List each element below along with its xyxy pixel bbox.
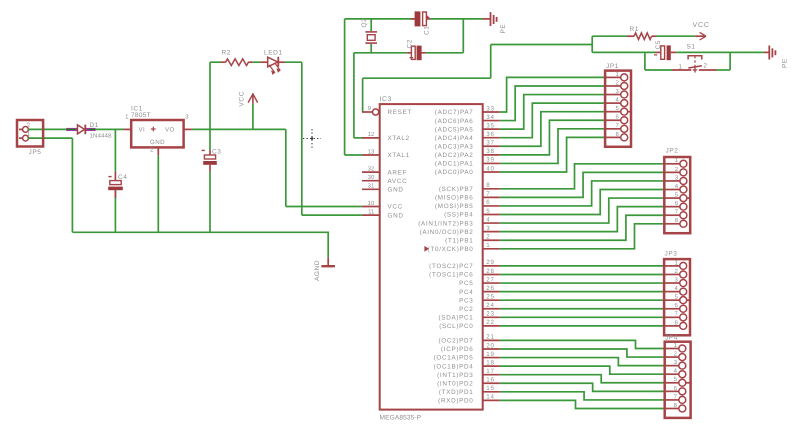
- svg-text:Q2: Q2: [361, 18, 368, 28]
- svg-text:JP5: JP5: [29, 149, 42, 156]
- svg-text:GND: GND: [388, 187, 404, 194]
- svg-text:34: 34: [486, 114, 494, 121]
- svg-text:13: 13: [368, 148, 375, 155]
- svg-text:33: 33: [486, 105, 494, 112]
- svg-text:C4: C4: [118, 174, 128, 181]
- svg-text:(AIN0/OC0)PB2: (AIN0/OC0)PB2: [420, 229, 474, 236]
- svg-text:PE: PE: [500, 24, 507, 34]
- svg-text:4: 4: [486, 216, 490, 223]
- svg-text:JP4: JP4: [665, 335, 678, 342]
- svg-text:C3: C3: [212, 148, 222, 155]
- svg-text:(SCL)PC0: (SCL)PC0: [439, 323, 473, 330]
- svg-text:(ADC5)PA5: (ADC5)PA5: [435, 126, 474, 133]
- svg-text:GND: GND: [388, 212, 404, 219]
- svg-text:VCC: VCC: [693, 22, 710, 29]
- svg-text:RESET: RESET: [388, 109, 413, 116]
- svg-text:(ADC1)PA1: (ADC1)PA1: [435, 161, 474, 168]
- svg-text:39: 39: [486, 157, 494, 164]
- svg-text:1N4448: 1N4448: [90, 133, 113, 140]
- svg-text:(INT0)PD2: (INT0)PD2: [437, 380, 473, 387]
- svg-text:(ADC4)PA4: (ADC4)PA4: [435, 135, 474, 142]
- svg-text:(SS)PB4: (SS)PB4: [444, 212, 473, 219]
- svg-text:MEGA8535-P: MEGA8535-P: [380, 414, 422, 421]
- svg-text:40: 40: [486, 165, 494, 172]
- svg-text:LED1: LED1: [264, 50, 283, 57]
- svg-text:9: 9: [368, 105, 372, 112]
- svg-text:18: 18: [486, 359, 494, 366]
- svg-text:11: 11: [368, 208, 375, 215]
- svg-text:2: 2: [27, 122, 31, 129]
- svg-text:PC2: PC2: [459, 306, 473, 313]
- svg-text:R2: R2: [222, 49, 232, 56]
- svg-text:3: 3: [185, 114, 189, 121]
- svg-text:(ADC3)PA3: (ADC3)PA3: [435, 143, 474, 150]
- svg-text:14: 14: [486, 394, 494, 401]
- svg-text:2: 2: [486, 234, 490, 241]
- svg-text:(MISO)PB6: (MISO)PB6: [435, 195, 474, 202]
- svg-text:(TOSC1)PC6: (TOSC1)PC6: [429, 272, 473, 279]
- svg-text:XTAL1: XTAL1: [388, 152, 410, 159]
- svg-text:3: 3: [486, 225, 490, 232]
- svg-text:(T1)PB1: (T1)PB1: [445, 237, 473, 244]
- svg-text:12: 12: [368, 131, 375, 138]
- svg-text:C5: C5: [655, 40, 662, 50]
- svg-text:2: 2: [150, 146, 154, 153]
- svg-text:(OC1B)PD4: (OC1B)PD4: [434, 363, 474, 370]
- svg-text:(SCK)PB7: (SCK)PB7: [439, 186, 474, 193]
- svg-text:(AIN1/INT2)PB3: (AIN1/INT2)PB3: [418, 220, 473, 227]
- svg-text:VI: VI: [139, 127, 146, 134]
- svg-text:5: 5: [486, 208, 490, 215]
- svg-text:17: 17: [486, 368, 494, 375]
- svg-text:C1: C1: [424, 25, 431, 35]
- svg-text:20: 20: [486, 342, 494, 349]
- svg-text:1: 1: [486, 242, 490, 249]
- svg-text:JP2: JP2: [666, 148, 679, 155]
- svg-text:32: 32: [368, 165, 375, 172]
- svg-text:(OC1A)PD5: (OC1A)PD5: [434, 355, 474, 362]
- svg-text:1: 1: [125, 114, 129, 121]
- svg-text:S1: S1: [687, 44, 696, 51]
- svg-text:(ADC6)PA6: (ADC6)PA6: [435, 118, 474, 125]
- svg-text:(MOSI)PB5: (MOSI)PB5: [435, 203, 474, 210]
- svg-text:VO: VO: [165, 127, 175, 134]
- svg-text:22: 22: [486, 319, 494, 326]
- svg-text:10: 10: [368, 200, 375, 207]
- svg-text:16: 16: [486, 377, 494, 384]
- svg-text:(SDA)PC1: (SDA)PC1: [439, 315, 474, 322]
- svg-text:(ADC0)PA0: (ADC0)PA0: [435, 169, 474, 176]
- svg-text:26: 26: [486, 285, 494, 292]
- svg-text:7: 7: [486, 191, 490, 198]
- svg-text:AGND: AGND: [314, 260, 321, 281]
- svg-text:28: 28: [486, 268, 494, 275]
- svg-text:31: 31: [368, 183, 375, 190]
- svg-text:R1: R1: [630, 26, 640, 33]
- svg-text:VCC: VCC: [388, 204, 403, 211]
- svg-text:VCC: VCC: [239, 91, 246, 107]
- svg-text:1: 1: [27, 131, 31, 138]
- svg-text:23: 23: [486, 311, 494, 318]
- svg-text:2: 2: [704, 63, 708, 70]
- svg-text:AREF: AREF: [388, 169, 408, 176]
- svg-text:(T0/XCK)PB0: (T0/XCK)PB0: [428, 246, 474, 253]
- svg-text:(ADC7)PA7: (ADC7)PA7: [435, 109, 474, 116]
- svg-text:JP1: JP1: [606, 63, 619, 70]
- svg-text:27: 27: [486, 276, 494, 283]
- svg-text:XTAL2: XTAL2: [388, 135, 410, 142]
- svg-text:1: 1: [679, 63, 683, 70]
- svg-text:25: 25: [486, 293, 494, 300]
- svg-text:PC3: PC3: [459, 297, 473, 304]
- svg-text:(RXD)PD0: (RXD)PD0: [438, 398, 473, 405]
- svg-text:15: 15: [486, 385, 494, 392]
- svg-text:IC3: IC3: [380, 96, 392, 103]
- svg-text:PE: PE: [782, 58, 789, 68]
- svg-text:8: 8: [486, 182, 490, 189]
- svg-text:30: 30: [368, 174, 375, 181]
- svg-text:AVCC: AVCC: [388, 178, 408, 185]
- svg-text:(OC2)PD7: (OC2)PD7: [439, 338, 474, 345]
- svg-text:D1: D1: [90, 122, 100, 129]
- svg-text:29: 29: [486, 259, 494, 266]
- svg-text:(ICP)PD6: (ICP)PD6: [441, 346, 474, 353]
- svg-text:(TOSC2)PC7: (TOSC2)PC7: [429, 263, 473, 270]
- svg-text:19: 19: [486, 351, 494, 358]
- svg-text:JP3: JP3: [665, 250, 678, 257]
- svg-text:C2: C2: [407, 39, 414, 49]
- svg-text:36: 36: [486, 131, 494, 138]
- svg-text:6: 6: [486, 199, 490, 206]
- svg-text:GND: GND: [150, 139, 165, 146]
- svg-text:35: 35: [486, 122, 494, 129]
- svg-text:37: 37: [486, 140, 494, 147]
- svg-text:(ADC2)PA2: (ADC2)PA2: [435, 152, 474, 159]
- svg-text:21: 21: [486, 334, 494, 341]
- svg-text:24: 24: [486, 302, 494, 309]
- svg-text:7805T: 7805T: [131, 112, 151, 119]
- svg-text:(INT1)PD3: (INT1)PD3: [437, 372, 473, 379]
- svg-text:PC5: PC5: [459, 280, 473, 287]
- svg-text:(TXD)PD1: (TXD)PD1: [439, 389, 474, 396]
- svg-text:PC4: PC4: [459, 289, 473, 296]
- svg-text:38: 38: [486, 148, 494, 155]
